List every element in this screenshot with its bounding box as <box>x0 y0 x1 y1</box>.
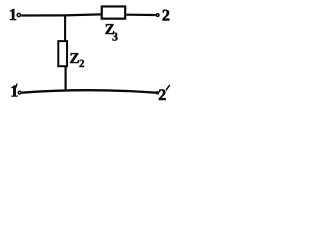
terminal 1' circle <box>18 91 21 94</box>
wire Z2 to bottom node B <box>64 67 66 91</box>
wire Z3 to terminal 2 <box>126 14 155 17</box>
bottom wire 1' to 2' <box>22 90 156 93</box>
svg-text:2: 2 <box>79 58 85 70</box>
svg-text:3: 3 <box>112 29 118 43</box>
svg-text:2: 2 <box>162 7 170 25</box>
label Z2 <box>70 51 85 70</box>
terminal 2' circle <box>156 92 158 94</box>
svg-text:1: 1 <box>9 5 17 24</box>
svg-text:2: 2 <box>158 87 166 104</box>
terminal 2' prime mark <box>166 85 169 89</box>
impedance Z2 box <box>58 41 67 66</box>
wire terminal 1 to node A <box>21 14 64 16</box>
terminal 1' prime mark <box>16 84 17 88</box>
wire node A down to Z2 <box>64 15 66 41</box>
terminal 1 circle <box>17 13 20 16</box>
terminal 2 circle <box>156 14 159 17</box>
wire node A to Z3 <box>65 14 101 15</box>
impedance Z3 box <box>102 6 125 18</box>
label Z3 <box>105 22 118 43</box>
